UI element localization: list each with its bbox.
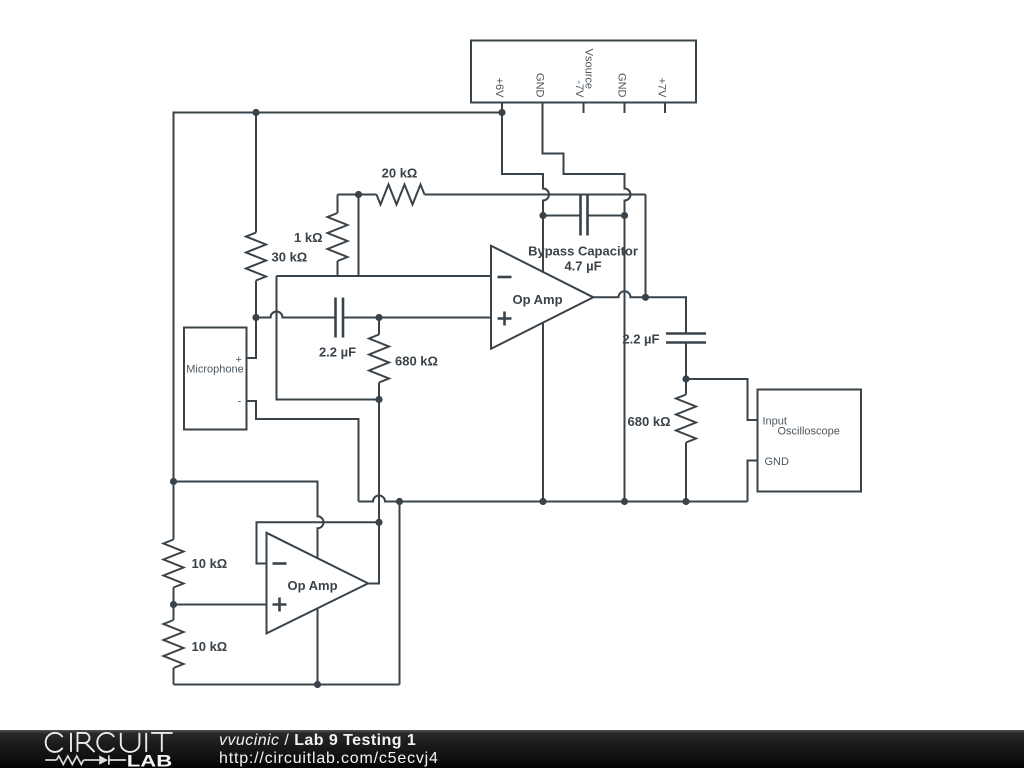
label 30 kOhm — [272, 250, 308, 265]
node dot bottom rail U2 V- — [314, 681, 321, 688]
svg-text:GND: GND — [533, 73, 545, 98]
pin +7V stub — [664, 103, 666, 114]
wire U2 V- supply — [317, 608, 319, 685]
label 20 kOhm — [382, 166, 418, 181]
label 680 kOhm right — [628, 414, 671, 429]
node dot 20k left — [355, 191, 362, 198]
wire inverting branch down — [277, 276, 380, 400]
wire op-amp U1 V+ supply — [542, 216, 544, 273]
wire U2 non-inverting input — [174, 604, 267, 606]
svg-text:GND: GND — [615, 73, 627, 98]
svg-text:4.7 µF: 4.7 µF — [564, 259, 601, 274]
node dot left rail / 10k — [170, 478, 177, 485]
svg-text:1 kΩ: 1 kΩ — [294, 230, 323, 245]
footer title line — [219, 732, 416, 750]
oscilloscope box SCOPE1 — [758, 390, 862, 492]
label mic plus — [236, 354, 242, 366]
svg-text:680 kΩ: 680 kΩ — [628, 414, 671, 429]
capacitor C2 bypass 4.7uF — [543, 196, 625, 236]
node dot +6V pin — [498, 109, 505, 116]
label Oscilloscope — [778, 426, 840, 438]
wire ground rail to bottom rail — [399, 502, 401, 685]
label pin GND1 — [533, 73, 545, 98]
node dot 680k bottom — [375, 396, 382, 403]
label 2.2 uF left — [319, 345, 356, 360]
svg-text:+7V: +7V — [656, 78, 668, 99]
wire bottom rail — [174, 684, 400, 686]
op-amp U1 output wire — [593, 291, 686, 333]
label 680 kOhm left — [395, 354, 438, 369]
wire microphone minus pin — [247, 401, 359, 502]
wire U2 supply feed — [174, 482, 324, 559]
node dot feedback tap U2 — [375, 519, 382, 526]
svg-text:Op Amp: Op Amp — [287, 578, 337, 593]
node dot gnd rail U1 V- — [539, 498, 546, 505]
resistor R1 30k — [246, 113, 266, 318]
svg-text:10 kΩ: 10 kΩ — [192, 556, 228, 571]
wire U1 non-inverting input — [379, 317, 491, 319]
wire oscilloscope input — [686, 379, 758, 420]
wire microphone plus pin — [247, 318, 257, 359]
logo LAB — [127, 752, 172, 768]
node dot gnd rail 680k — [682, 498, 689, 505]
node dot gnd rail x399 — [396, 498, 403, 505]
resistor R4 680k — [369, 318, 389, 400]
wire U2 inverting input — [257, 522, 380, 563]
node dot mic plus / C1 — [252, 314, 259, 321]
svg-text:Vsource: Vsource — [583, 49, 595, 89]
node dot C1 right / 680k top — [375, 314, 382, 321]
node dot U1 output — [642, 294, 649, 301]
logo wire-resistor-diode squiggle — [45, 755, 126, 764]
svg-text:2.2 µF: 2.2 µF — [622, 332, 659, 347]
capacitor C1 2.2uF — [256, 298, 379, 338]
op-amp U1 — [491, 246, 593, 349]
pin GND2 stub — [624, 103, 626, 114]
capacitor C3 2.2uF — [666, 334, 706, 380]
resistor R5 680k — [676, 379, 696, 502]
svg-text:LAB: LAB — [127, 752, 172, 768]
resistor R3 20k — [359, 185, 646, 205]
svg-text:-: - — [238, 396, 242, 408]
node dot C3 bottom — [682, 375, 689, 382]
wire +6V top rail — [174, 113, 503, 482]
svg-text:Bypass Capacitor: Bypass Capacitor — [528, 244, 638, 259]
label GND scope — [765, 456, 790, 468]
node dot 10k junction — [170, 601, 177, 608]
wire U1 inverting input — [277, 275, 492, 277]
footer bar — [0, 730, 1024, 768]
label Vsource — [583, 49, 595, 89]
svg-text:Op Amp: Op Amp — [512, 292, 562, 307]
label 10 kOhm lower — [192, 639, 228, 654]
label Input — [763, 416, 787, 428]
microphone MIC1 box — [184, 328, 247, 430]
label Microphone — [186, 364, 243, 376]
wire GND pin to bypass node — [543, 103, 631, 216]
label Op Amp U1 — [512, 292, 562, 307]
label pin +7V — [656, 78, 668, 99]
svg-text:2.2 µF: 2.2 µF — [319, 345, 356, 360]
svg-text:+: + — [236, 354, 242, 366]
label 2.2 uF right — [622, 332, 659, 347]
label Bypass Capacitor — [528, 244, 638, 259]
pin Vsource -7V stub — [583, 103, 585, 114]
node dot bypass left — [539, 212, 546, 219]
wire GND column to ground rail — [624, 216, 626, 502]
svg-text:Oscilloscope: Oscilloscope — [778, 426, 840, 438]
resistor R7 10k — [164, 605, 184, 685]
label pin -7V — [573, 80, 585, 98]
svg-text:30 kΩ: 30 kΩ — [272, 250, 308, 265]
node dot top rail / 30k — [252, 109, 259, 116]
node dot bypass right — [621, 212, 628, 219]
label mic minus — [238, 396, 242, 408]
svg-text:GND: GND — [765, 456, 790, 468]
wire U2 feedback — [368, 400, 379, 584]
wire ground rail — [359, 496, 748, 502]
wire +6V drop to bypass node — [502, 113, 549, 216]
wire feedback right drop — [645, 195, 647, 298]
svg-text:20 kΩ: 20 kΩ — [382, 166, 418, 181]
label pin GND2 — [615, 73, 627, 98]
voltage source box SRC1 — [471, 41, 696, 103]
logo CIRCUIT — [46, 732, 173, 751]
label 10 kOhm upper — [192, 556, 228, 571]
label pin +6V — [493, 78, 505, 99]
svg-text:+6V: +6V — [493, 78, 505, 99]
op-amp U2 — [267, 533, 369, 634]
resistor R6 10k — [164, 482, 184, 605]
svg-text:680 kΩ: 680 kΩ — [395, 354, 438, 369]
pin +6V stub — [501, 103, 503, 113]
wire op-amp U1 V- supply — [542, 323, 544, 502]
wire oscilloscope ground — [748, 461, 758, 502]
resistor R2 1k — [328, 195, 348, 277]
label 4.7 uF — [564, 259, 601, 274]
label 1 kOhm — [294, 230, 323, 245]
svg-text:10 kΩ: 10 kΩ — [192, 639, 228, 654]
wire 1k top to 20k node — [338, 194, 359, 196]
footer url line — [219, 750, 439, 768]
label Op Amp U2 — [287, 578, 337, 593]
node dot gnd rail x624 — [621, 498, 628, 505]
wire 20k tap to inverting input — [358, 195, 360, 277]
